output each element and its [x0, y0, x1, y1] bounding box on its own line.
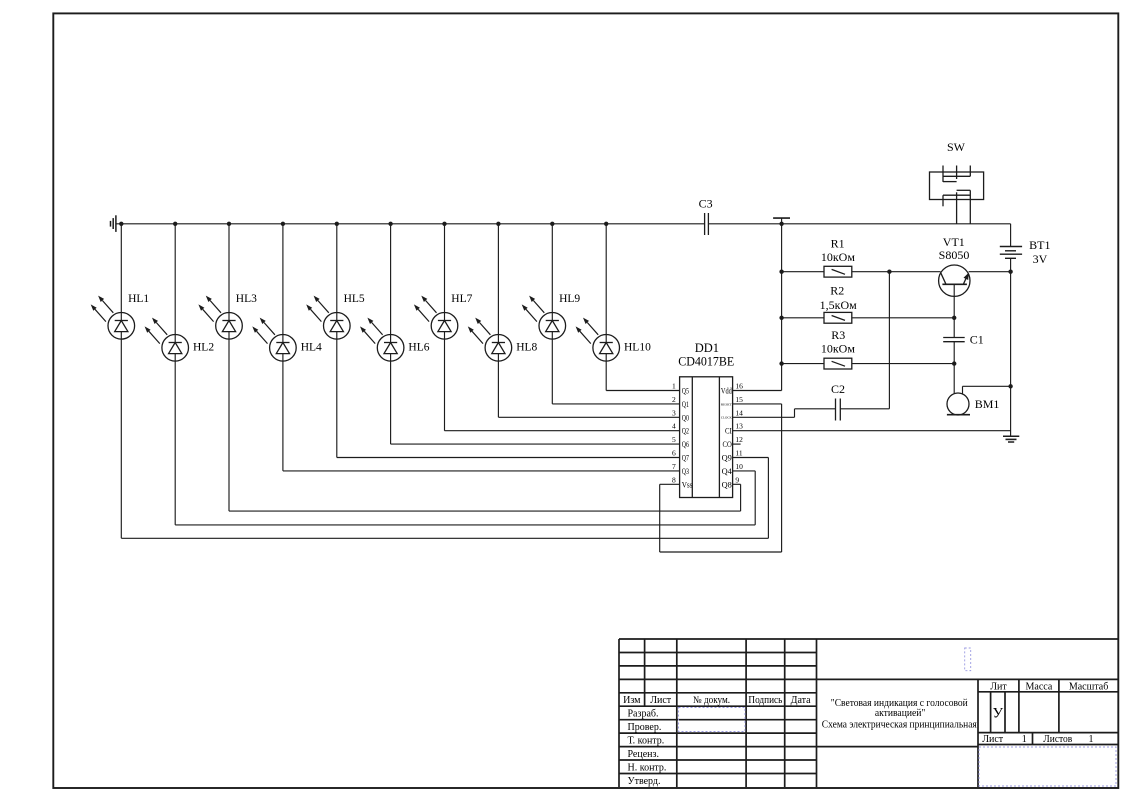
svg-text:Подпись: Подпись: [748, 695, 782, 706]
svg-text:HL2: HL2: [193, 341, 214, 353]
svg-text:Q3: Q3: [682, 467, 689, 476]
svg-text:CI: CI: [725, 427, 732, 436]
svg-text:3: 3: [672, 408, 676, 417]
svg-text:CD4017BE: CD4017BE: [678, 354, 734, 368]
svg-text:Н. контр.: Н. контр.: [628, 762, 667, 773]
svg-text:14: 14: [735, 408, 743, 417]
svg-text:R2: R2: [830, 283, 844, 297]
svg-text:BM1: BM1: [975, 397, 1000, 411]
svg-text:C2: C2: [831, 382, 845, 396]
svg-text:2: 2: [672, 395, 676, 404]
svg-text:HL8: HL8: [516, 341, 537, 353]
svg-text:Q6: Q6: [682, 440, 689, 449]
svg-text:Q9: Q9: [722, 454, 732, 463]
svg-text:RESET: RESET: [721, 402, 733, 406]
svg-text:1: 1: [1022, 734, 1027, 745]
svg-text:Лист: Лист: [982, 734, 1004, 745]
svg-text:HL5: HL5: [344, 293, 365, 305]
svg-text:HL9: HL9: [559, 293, 580, 305]
svg-text:10: 10: [735, 462, 743, 471]
svg-text:1: 1: [1089, 734, 1094, 745]
svg-text:Изм: Изм: [623, 695, 641, 706]
svg-text:У: У: [992, 706, 1003, 722]
svg-text:8: 8: [672, 475, 676, 484]
svg-text:R1: R1: [831, 237, 845, 251]
svg-text:HL6: HL6: [408, 341, 429, 353]
svg-text:Схема электрическая принципиал: Схема электрическая принципиальная: [822, 719, 977, 731]
svg-text:Листов: Листов: [1043, 734, 1072, 745]
svg-text:Масштаб: Масштаб: [1069, 681, 1109, 692]
svg-text:HL7: HL7: [451, 293, 472, 305]
svg-text:S8050: S8050: [939, 248, 970, 262]
svg-text:Q4: Q4: [722, 467, 732, 476]
svg-text:5: 5: [672, 435, 676, 444]
svg-text:BT1: BT1: [1029, 238, 1050, 252]
svg-text:6: 6: [672, 449, 676, 458]
svg-text:10кОм: 10кОм: [821, 250, 855, 264]
svg-text:Разраб.: Разраб.: [628, 709, 659, 720]
svg-text:16: 16: [735, 382, 743, 391]
svg-text:Q2: Q2: [682, 427, 689, 436]
svg-text:Реценз.: Реценз.: [628, 749, 659, 760]
svg-text:HL3: HL3: [236, 293, 257, 305]
svg-text:1,5кОм: 1,5кОм: [820, 298, 857, 312]
svg-text:CO: CO: [723, 440, 732, 449]
svg-text:1: 1: [672, 382, 676, 391]
svg-text:Утверд.: Утверд.: [628, 776, 661, 787]
svg-text:13: 13: [735, 422, 743, 431]
svg-text:Vss: Vss: [682, 480, 693, 489]
svg-text:Масса: Масса: [1026, 681, 1053, 692]
svg-text:3V: 3V: [1033, 252, 1048, 266]
svg-text:10кОм: 10кОм: [821, 341, 855, 355]
svg-text:Т. контр.: Т. контр.: [628, 735, 665, 746]
svg-text:Лист: Лист: [650, 695, 672, 706]
svg-text:VT1: VT1: [943, 235, 965, 249]
svg-text:Q7: Q7: [682, 454, 689, 463]
svg-text:Q0: Q0: [682, 413, 689, 422]
svg-text:CLOCK: CLOCK: [721, 416, 732, 420]
svg-text:активацией": активацией": [875, 707, 926, 719]
svg-text:HL10: HL10: [624, 341, 651, 353]
svg-text:DD1: DD1: [695, 341, 719, 355]
svg-text:Провер.: Провер.: [628, 722, 662, 733]
svg-text:HL1: HL1: [128, 293, 149, 305]
svg-text:C3: C3: [699, 196, 713, 210]
svg-text:Vdd: Vdd: [721, 387, 732, 396]
svg-text:SW: SW: [947, 140, 966, 154]
svg-text:HL4: HL4: [301, 341, 322, 353]
svg-text:Дата: Дата: [791, 695, 811, 706]
svg-text:15: 15: [735, 395, 743, 404]
svg-text:7: 7: [672, 462, 676, 471]
svg-text:Q8: Q8: [722, 480, 732, 489]
svg-text:9: 9: [735, 475, 739, 484]
svg-text:C1: C1: [970, 333, 984, 347]
svg-text:Q1: Q1: [682, 400, 689, 409]
svg-text:12: 12: [735, 435, 743, 444]
svg-text:Лит: Лит: [990, 681, 1007, 692]
svg-text:Q5: Q5: [682, 387, 689, 396]
svg-text:№ докум.: № докум.: [693, 695, 730, 706]
svg-text:R3: R3: [831, 328, 845, 342]
svg-text:4: 4: [672, 422, 676, 431]
svg-text:11: 11: [735, 449, 742, 458]
